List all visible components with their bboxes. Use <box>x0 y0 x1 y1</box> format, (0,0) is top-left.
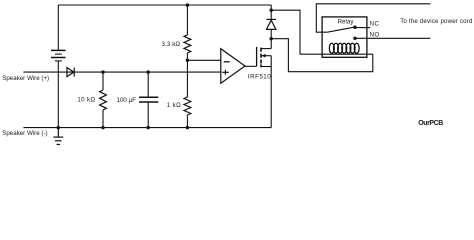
svg-text:OurPCB: OurPCB <box>418 120 443 127</box>
wire drain node to relay coil right (loop under relay) <box>271 39 373 72</box>
wire flyback anode to drain node <box>270 29 272 38</box>
node ground rail 1k junction <box>186 126 189 129</box>
node junction 3.3k to top rail <box>186 3 189 6</box>
wire relay coil bottom lead <box>300 53 373 55</box>
wire relay NC stub <box>355 27 370 29</box>
node drain junction <box>270 37 273 40</box>
svg-text:NO: NO <box>370 31 380 38</box>
svg-text:10 kΩ: 10 kΩ <box>77 96 95 103</box>
svg-text:1 kΩ: 1 kΩ <box>167 102 181 109</box>
node ground rail battery junction <box>57 126 60 129</box>
svg-text:Relay: Relay <box>338 19 355 26</box>
node 3.3k / 1k divider junction <box>186 59 189 62</box>
node relay NO contact <box>353 37 356 40</box>
svg-text:To the device power cord: To the device power cord <box>400 18 473 25</box>
wire speaker minus / ground rail <box>23 127 271 129</box>
svg-text:NC: NC <box>370 20 380 27</box>
wire relay NO line to power cord <box>355 37 430 39</box>
svg-text:3.3 kΩ: 3.3 kΩ <box>162 41 181 48</box>
transistor Q1 IRF510 MOSFET symbol <box>257 47 272 67</box>
wire relay common riser to power cord line <box>316 4 430 32</box>
wire MOSFET source down to ground rail <box>270 67 272 128</box>
svg-text:Speaker Wire (+): Speaker Wire (+) <box>2 75 49 82</box>
wire battery negative down to ground rail (crosses + wire, no dot) <box>57 61 59 127</box>
svg-text:Speaker Wire (-): Speaker Wire (-) <box>2 130 47 137</box>
svg-text:IRF510: IRF510 <box>248 74 271 81</box>
relay coil L1 <box>329 43 359 53</box>
node ground rail capacitor junction <box>147 126 150 129</box>
node relay NC contact <box>353 26 356 29</box>
capacitor C1 100uF <box>139 72 158 128</box>
relay armature switch <box>327 27 353 32</box>
diode D1 on speaker plus line (pointing right) <box>67 68 74 77</box>
wire speaker plus line <box>23 71 220 73</box>
node flyback diode cathode junction <box>270 9 273 12</box>
wire op-amp output to MOSFET gate <box>245 65 257 67</box>
ground symbol <box>53 128 63 145</box>
wire from flyback node to relay coil left feed <box>271 10 300 54</box>
svg-text:100 µF: 100 µF <box>117 97 137 104</box>
resistor R2 3.3k <box>184 5 191 60</box>
battery B1 <box>51 5 66 61</box>
node 10k top junction <box>101 70 104 73</box>
relay K1 box <box>322 17 367 57</box>
wire inverting input from divider to op-amp <box>187 59 220 61</box>
node ground rail 10k junction <box>101 126 104 129</box>
diode D2 flyback (cathode bar up) <box>266 19 276 29</box>
node capacitor top junction <box>147 70 150 73</box>
wire corner from top rail down to flyback node <box>270 5 272 20</box>
resistor R3 1k <box>184 60 191 127</box>
resistor R1 10k <box>100 72 107 128</box>
wire MOSFET drain riser <box>270 39 272 49</box>
op-amp U1 comparator triangle <box>221 49 245 83</box>
wire top +12V rail from battery to flyback diode <box>58 4 271 6</box>
